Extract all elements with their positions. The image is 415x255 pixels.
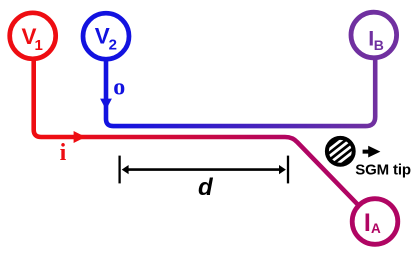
- svg-text:I: I: [364, 209, 371, 237]
- svg-text:B: B: [374, 37, 384, 53]
- dimension d: left tick: [118, 156, 120, 184]
- SGM tip: hatched circle: [318, 129, 364, 175]
- arrowhead o (blue, pointing down on V2 wire): [100, 99, 112, 110]
- svg-text:i: i: [60, 140, 67, 166]
- svg-text:SGM tip: SGM tip: [355, 161, 411, 178]
- svg-text:2: 2: [109, 37, 117, 54]
- wire: red channel from V1 to IA: [34, 60, 359, 205]
- svg-text:A: A: [371, 221, 381, 236]
- arrowhead i (red, pointing right on channel): [74, 131, 86, 143]
- terminal IA: [352, 199, 398, 245]
- wire: blue channel from V2 to IB: [106, 60, 375, 126]
- SGM tip: arrow: [363, 146, 381, 158]
- terminal IB: [351, 12, 397, 58]
- svg-text:d: d: [198, 174, 214, 201]
- terminal V2: [83, 13, 129, 59]
- dimension d: right tick: [287, 156, 289, 184]
- dimension d: double arrow line: [127, 168, 281, 171]
- svg-text:o: o: [113, 75, 125, 101]
- svg-text:V: V: [95, 23, 110, 48]
- svg-text:1: 1: [35, 37, 43, 54]
- terminal V1: [10, 13, 56, 59]
